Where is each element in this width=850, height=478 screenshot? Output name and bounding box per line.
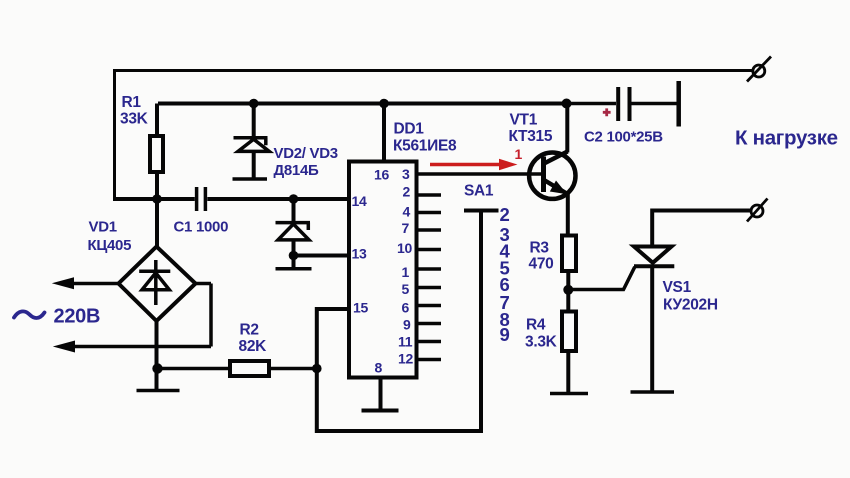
svg-text:1: 1 — [402, 264, 410, 280]
svg-text:R3: R3 — [530, 240, 550, 257]
svg-text:Д814Б: Д814Б — [274, 162, 320, 179]
svg-text:15: 15 — [353, 300, 368, 316]
svg-text:КЦ405: КЦ405 — [88, 237, 132, 254]
svg-text:4: 4 — [403, 204, 411, 220]
svg-text:1: 1 — [515, 146, 523, 162]
svg-text:9: 9 — [403, 317, 411, 333]
svg-text:11: 11 — [398, 334, 413, 350]
svg-text:2: 2 — [500, 204, 510, 225]
svg-text:16: 16 — [374, 167, 389, 183]
svg-text:33K: 33K — [120, 111, 149, 128]
svg-text:VD1: VD1 — [89, 219, 117, 236]
svg-text:2: 2 — [403, 184, 411, 200]
svg-text:82K: 82K — [239, 338, 268, 355]
svg-text:К нагрузке: К нагрузке — [735, 127, 838, 150]
svg-text:3: 3 — [402, 166, 410, 182]
svg-text:VS1: VS1 — [663, 279, 692, 296]
svg-text:220В: 220В — [54, 306, 101, 328]
svg-text:К561ИЕ8: К561ИЕ8 — [393, 138, 457, 155]
svg-text:5: 5 — [402, 281, 410, 297]
svg-text:R4: R4 — [526, 317, 546, 334]
svg-text:R1: R1 — [122, 94, 142, 111]
svg-text:КУ202Н: КУ202Н — [663, 297, 718, 314]
svg-text:12: 12 — [398, 351, 413, 367]
svg-text:R2: R2 — [240, 322, 259, 339]
svg-text:6: 6 — [402, 300, 410, 316]
svg-text:DD1: DD1 — [394, 121, 425, 138]
svg-text:VD2/ VD3: VD2/ VD3 — [274, 145, 338, 162]
svg-text:10: 10 — [397, 240, 412, 256]
svg-text:14: 14 — [352, 193, 367, 209]
svg-text:470: 470 — [529, 256, 554, 273]
svg-text:9: 9 — [500, 324, 510, 345]
svg-text:C2 100*25В: C2 100*25В — [584, 129, 663, 146]
svg-text:КТ315: КТ315 — [509, 128, 553, 145]
svg-text:3.3K: 3.3K — [525, 334, 558, 351]
svg-text:8: 8 — [375, 360, 383, 376]
svg-text:SA1: SA1 — [464, 183, 494, 200]
svg-text:VT1: VT1 — [510, 112, 538, 129]
svg-text:13: 13 — [352, 246, 367, 262]
svg-text:C1 1000: C1 1000 — [174, 219, 229, 236]
svg-text:7: 7 — [402, 220, 410, 236]
